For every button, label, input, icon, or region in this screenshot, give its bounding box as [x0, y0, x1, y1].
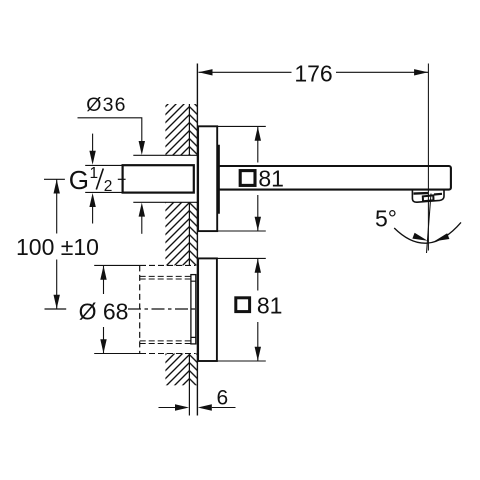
svg-text:G: G — [69, 165, 89, 195]
dimension 176 line — [199, 71, 429, 73]
5 degree arc right arrow — [434, 233, 449, 241]
G1/2 top arrow (down) — [89, 151, 95, 165]
Ø36 bottom arrow stem — [141, 216, 143, 234]
svg-text:Ø36: Ø36 — [86, 94, 126, 116]
Ø36 hole bottom line — [133, 201, 197, 203]
Ø68 dim line — [103, 266, 105, 353]
upper 81 up arrow — [255, 127, 261, 141]
100 +-10 top arrow (up) — [54, 180, 60, 194]
svg-text:176: 176 — [294, 60, 332, 86]
upper square symbol — [240, 171, 255, 186]
lower 81 down arrow — [255, 347, 261, 361]
lower concealed body dashed outline top — [94, 264, 140, 266]
tick right of G1/2 — [118, 178, 126, 180]
spout bar — [218, 166, 451, 190]
wall hatch upper section — [165, 104, 189, 155]
svg-text:6: 6 — [216, 386, 228, 409]
dimension 176 left arrow — [199, 69, 213, 75]
dashed box left edge — [139, 265, 141, 353]
extension line right (spout tip axis) — [427, 64, 429, 251]
lower escutcheon plate — [198, 258, 217, 361]
upper 81 extension bottom — [217, 230, 266, 232]
G1/2 bottom arrow stem — [92, 207, 94, 224]
wall hatch middle section — [165, 202, 189, 265]
100 +-10 top tick — [44, 178, 65, 180]
lower 81 extension bottom — [217, 360, 266, 362]
svg-text:81: 81 — [258, 166, 284, 192]
label Ø36 leader — [78, 118, 142, 149]
dim 6 right arrow — [198, 404, 212, 410]
centerline — [45, 308, 67, 310]
G1/2 bottom arrow (up) — [89, 193, 95, 207]
lower concealed body dashed outline bottom — [94, 353, 140, 355]
pipe edge extension lines — [85, 165, 122, 192]
tile hatch upper section — [189, 104, 197, 155]
aerator slot left — [414, 192, 429, 195]
5 degree arc left arrow — [412, 233, 427, 241]
svg-text:1: 1 — [90, 165, 99, 182]
lower 81 dim line — [257, 259, 259, 361]
upper escutcheon plate — [198, 126, 217, 231]
5 degree arc — [394, 222, 461, 243]
upper 81 down arrow — [255, 217, 261, 231]
100 +-10 bottom arrow (down) — [54, 295, 60, 309]
lower square symbol — [236, 298, 250, 312]
100 +-10 dim line — [56, 180, 58, 309]
upper 81 extension top — [217, 125, 266, 127]
dim 6 left tail — [159, 407, 176, 409]
cartridge sleeve at wall — [191, 275, 196, 344]
dim 6 left arrow — [175, 404, 189, 410]
dimension 176 right arrow — [414, 69, 428, 75]
tile hatch middle section — [189, 202, 197, 265]
inner dashed lines top — [140, 276, 191, 279]
dim 6 right tail — [212, 407, 236, 409]
Ø36 top arrow (down) — [139, 141, 145, 155]
Ø68 down arrow — [100, 339, 106, 353]
svg-text:Ø 68: Ø 68 — [79, 299, 129, 325]
aerator slot right — [434, 193, 442, 196]
svg-text:100 ±10: 100 ±10 — [16, 234, 99, 260]
5 degree tilted axis line — [427, 194, 432, 254]
tile hatch lower section — [189, 354, 197, 386]
lower 81 extension top — [217, 257, 266, 259]
Ø36 bottom arrow (up) — [139, 203, 145, 217]
tile back line — [188, 104, 190, 416]
svg-text:81: 81 — [257, 293, 283, 319]
G1/2 top arrow stem — [92, 134, 94, 152]
supply pipe G1/2 — [123, 165, 194, 192]
svg-text:2: 2 — [104, 178, 113, 195]
spout base plate edge — [218, 145, 220, 214]
aerator insert — [423, 195, 434, 201]
wall hatch lower section — [165, 354, 189, 386]
Ø36 hole top line — [133, 154, 197, 156]
upper 81 dim line — [257, 127, 259, 231]
inner dashed lines bottom — [140, 341, 191, 344]
svg-text:5°: 5° — [375, 206, 397, 232]
wall finished face line — [196, 64, 198, 416]
aerator outer outline — [412, 190, 444, 202]
Ø68 up arrow — [100, 266, 106, 280]
lower 81 up arrow — [255, 259, 261, 273]
